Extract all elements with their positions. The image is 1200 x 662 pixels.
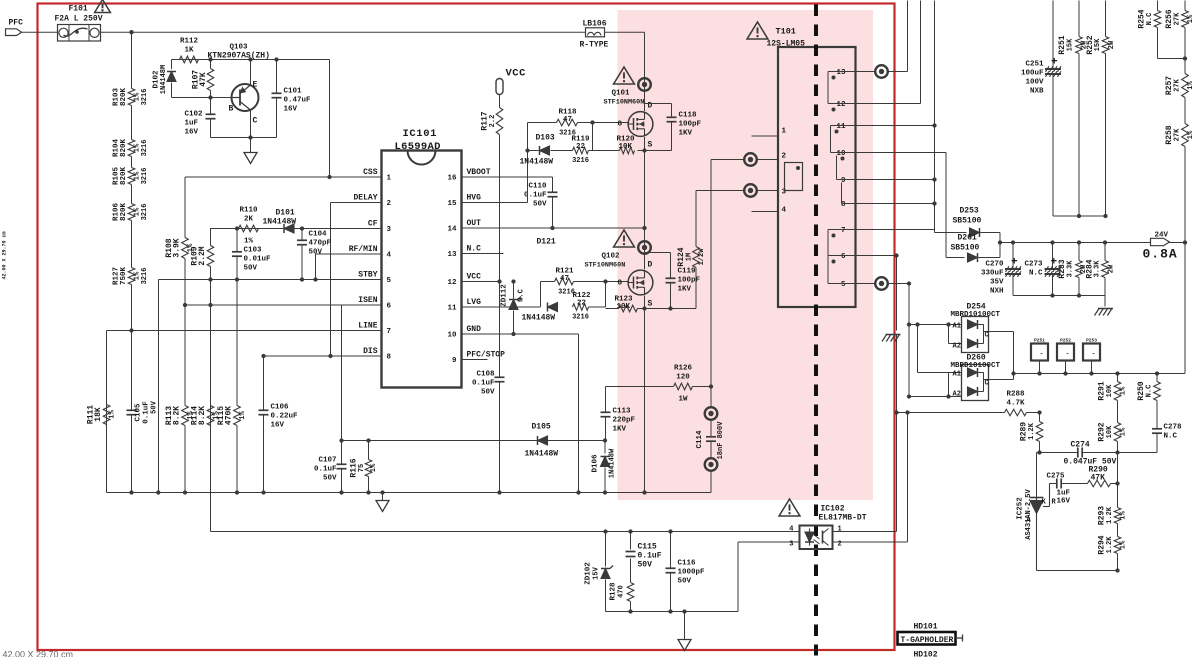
svg-text:R288: R288 [1006, 391, 1025, 399]
junction ZD112/GND [511, 332, 515, 336]
wire ISEN line [185, 304, 382, 306]
wire pin3 line [738, 542, 800, 612]
rectifier D260 [951, 354, 1001, 401]
wire to ground [250, 138, 252, 153]
wire chain top [131, 32, 133, 88]
wire C251 bottom rail [1053, 215, 1106, 217]
svg-text:1%: 1% [1187, 130, 1195, 139]
svg-text:S: S [648, 141, 653, 150]
junction R128/rail [628, 609, 632, 613]
svg-text:N.C: N.C [467, 245, 482, 254]
svg-text:14: 14 [447, 226, 457, 234]
svg-text:50V: 50V [151, 400, 159, 413]
svg-text:220pF: 220pF [613, 417, 636, 425]
junction R290 line [1115, 481, 1119, 485]
svg-text:3216: 3216 [141, 89, 149, 106]
label C105 [135, 400, 159, 423]
svg-text:1N4148W: 1N4148W [520, 158, 554, 167]
capacitor C108 [472, 371, 505, 397]
svg-text:4: 4 [782, 207, 787, 215]
junction D103 line [525, 148, 529, 152]
svg-text:D: D [648, 261, 653, 270]
wire pin5 east [888, 283, 909, 285]
svg-text:8.2K: 8.2K [173, 406, 182, 425]
resistor R256 [1165, 9, 1195, 28]
wire x896 feedback drop [896, 335, 898, 532]
wire R119-R120 riser [592, 123, 594, 151]
svg-text:SB5100: SB5100 [953, 217, 982, 226]
ground at Q103 [244, 153, 257, 164]
junction C107/rail [339, 490, 343, 494]
svg-text:50V: 50V [244, 265, 258, 273]
transistor Q103 [208, 44, 270, 126]
diode D253 [935, 207, 1001, 238]
svg-text:13: 13 [447, 251, 457, 259]
svg-text:N.C: N.C [1029, 270, 1043, 278]
wire drop x908 to rectifiers [908, 284, 910, 397]
connector HD101/HD102 T-GAPHOLDER [898, 623, 963, 660]
svg-text:L6599AD: L6599AD [395, 141, 441, 153]
transformer T101 [778, 47, 856, 307]
wire pin13 to TP [856, 71, 876, 73]
junction D254 A1 feed [907, 322, 911, 326]
svg-text:50V: 50V [323, 475, 337, 483]
ground at rail [376, 501, 389, 512]
wire D260 bracket [948, 373, 950, 397]
wire R103-R104 [131, 106, 133, 140]
junction C113/D105/D106 [603, 438, 607, 442]
svg-text:3216: 3216 [141, 140, 149, 157]
junction C104/STBY [300, 277, 304, 281]
svg-text:GND: GND [467, 325, 482, 334]
op-amp IC101 (L6599AD controller) [382, 128, 462, 388]
wire output rail 2 [1014, 373, 1186, 375]
svg-text:C: C [253, 117, 258, 126]
test point pin13 [875, 65, 888, 78]
svg-text:-: - [1066, 351, 1070, 358]
wire Q101 source to OUT [644, 137, 646, 270]
svg-text:100pF: 100pF [679, 121, 702, 129]
winding T101 primary [785, 163, 803, 191]
resistor R258 [1165, 124, 1195, 147]
svg-text:3.9K: 3.9K [173, 238, 182, 257]
svg-text:C101: C101 [284, 88, 303, 96]
junction pin9/riser [932, 177, 936, 181]
svg-text:5: 5 [841, 281, 846, 289]
junction R118/riser [590, 120, 594, 124]
svg-text:C114: C114 [696, 430, 704, 449]
pin numbers T101 primary [782, 128, 787, 215]
junction C116 [668, 529, 672, 533]
svg-text:1: 1 [782, 128, 787, 136]
capacitor C101 [272, 60, 312, 138]
wire LINE drop R111 [106, 331, 108, 493]
resistor R294 [1098, 535, 1128, 554]
svg-text:S: S [648, 300, 653, 309]
wire D105 line [342, 440, 606, 442]
resistor R119 [571, 136, 590, 166]
resistor R288 [1005, 391, 1027, 416]
wire pin6 east [856, 255, 897, 257]
svg-text:7: 7 [387, 328, 392, 336]
svg-text:R128: R128 [610, 582, 618, 601]
svg-text:ZD112: ZD112 [501, 284, 509, 307]
svg-text:DIS: DIS [363, 347, 378, 356]
wire ground rail [107, 492, 712, 494]
svg-text:C107: C107 [318, 457, 336, 465]
capacitor C103 [232, 229, 271, 280]
wire riser C251 [1052, 1, 1054, 217]
capacitor C270 [981, 257, 1021, 296]
svg-text:B: B [229, 105, 234, 114]
junction R288/R289 [1037, 410, 1041, 414]
svg-text:C270: C270 [985, 261, 1004, 269]
junction R283/gnd [1077, 293, 1081, 297]
svg-text:9: 9 [452, 357, 457, 365]
test point Q102 drain [638, 241, 651, 254]
wire gate riser Q102 [540, 282, 542, 308]
svg-text:N.C: N.C [1164, 433, 1178, 441]
junction OUT/half-bridge [642, 226, 646, 230]
wire GND drop [578, 334, 580, 493]
svg-text:C119: C119 [678, 268, 697, 276]
svg-text:1%: 1% [1120, 427, 1128, 436]
svg-text:1uF: 1uF [1057, 490, 1071, 498]
svg-text:22: 22 [577, 300, 587, 308]
svg-text:C: C [985, 380, 989, 388]
inductor LB106 [580, 20, 609, 50]
svg-text:VCC: VCC [506, 68, 527, 80]
wire Q103 to CSS [329, 60, 331, 178]
junction C106/rail [261, 490, 265, 494]
svg-text:2W: 2W [1108, 264, 1116, 273]
svg-text:R126: R126 [674, 365, 693, 373]
svg-text:C103: C103 [244, 247, 263, 255]
resistor R292 [1098, 422, 1128, 441]
wire C113 column [605, 387, 607, 441]
junction R294/rail [1115, 568, 1119, 572]
svg-text:C275: C275 [1047, 473, 1066, 481]
junction C273/gnd [1050, 293, 1054, 297]
wire Q102 source down [644, 296, 646, 493]
capacitor C118 [667, 104, 702, 151]
resistor R120 [606, 136, 636, 154]
svg-text:100V: 100V [1025, 79, 1044, 87]
wire DELAY drop [330, 203, 332, 357]
svg-text:1%: 1% [239, 411, 247, 420]
resistor R251 [1058, 35, 1082, 216]
svg-text:C106: C106 [271, 404, 290, 412]
svg-text:18nF 800V: 18nF 800V [717, 421, 725, 460]
wire pin2 to column [711, 159, 744, 161]
wire CF line [210, 228, 382, 230]
svg-text:16V: 16V [185, 129, 199, 137]
junction RFMIN/STBY [313, 277, 317, 281]
svg-text:0.8A: 0.8A [1143, 247, 1178, 262]
wire gnd stub C270 rail [1104, 296, 1106, 307]
svg-text:G: G [618, 121, 623, 129]
wire Q101 D-S to C118 [645, 103, 672, 105]
svg-text:C115: C115 [638, 543, 657, 552]
svg-text:42.00 X 29.70 cm: 42.00 X 29.70 cm [3, 650, 74, 658]
svg-text:35V: 35V [990, 279, 1004, 287]
svg-text:24V: 24V [1155, 232, 1169, 240]
wire C114 column [710, 387, 712, 493]
warning symbol at Q102 [614, 230, 635, 247]
resistor R128 [610, 582, 634, 601]
resistor R293 [1098, 506, 1128, 525]
junction Q102 source [642, 306, 646, 310]
svg-text:50V: 50V [533, 201, 547, 209]
highlight region (pink) [618, 10, 874, 500]
junction P253 [1089, 371, 1093, 375]
svg-text:47K: 47K [199, 72, 208, 87]
svg-text:16V: 16V [271, 422, 285, 430]
svg-text:C104: C104 [309, 231, 328, 239]
svg-text:C273: C273 [1024, 261, 1043, 269]
svg-text:STBY: STBY [358, 271, 377, 280]
svg-text:1000pF: 1000pF [678, 569, 706, 577]
wire D260 A1 feed [918, 325, 962, 373]
svg-text:1%: 1% [370, 463, 378, 472]
rectifier D254 [951, 303, 1001, 353]
svg-text:3216: 3216 [572, 314, 589, 322]
junction C107 top [339, 438, 343, 442]
wire to D260 A2 [909, 396, 962, 398]
wire gate line Q102 [541, 281, 628, 283]
svg-text:D105: D105 [532, 423, 551, 432]
svg-text:8: 8 [387, 354, 392, 362]
wire D102 to Q103 base [172, 97, 232, 99]
svg-text:0.1uF: 0.1uF [143, 401, 151, 424]
svg-text:N.C: N.C [518, 289, 526, 302]
connector 24V [1143, 232, 1178, 262]
resistor R104 [113, 139, 150, 158]
svg-text:G: G [618, 280, 623, 288]
svg-text:NXB: NXB [1030, 88, 1044, 96]
svg-text:A1: A1 [953, 323, 961, 331]
wire R123 to source [638, 308, 697, 310]
junction Q102 source/rail [642, 490, 646, 494]
svg-text:C: C [985, 332, 989, 340]
svg-text:C278: C278 [1164, 424, 1183, 432]
junction gnd stub low [682, 609, 686, 613]
svg-text:LVG: LVG [467, 298, 482, 307]
svg-text:T101: T101 [776, 27, 796, 37]
winding T101 sec 7-6-5 [828, 230, 856, 284]
svg-text:1%: 1% [1120, 386, 1128, 395]
svg-text:A1: A1 [953, 371, 961, 379]
wire pin11 east [856, 125, 935, 127]
capacitor C278 [1152, 424, 1182, 441]
optocoupler IC102 [789, 505, 866, 550]
capacitor C251 [1021, 57, 1061, 96]
wire LINE line [107, 330, 382, 332]
fuse F101 [55, 5, 103, 42]
junction bracket D254 [946, 322, 950, 326]
svg-text:R110: R110 [239, 207, 258, 215]
resistor R112 [180, 38, 199, 63]
svg-text:16V: 16V [1057, 498, 1071, 506]
junction C105/rail [129, 490, 133, 494]
svg-text:15K: 15K [1094, 38, 1102, 51]
svg-text:470pF: 470pF [309, 240, 332, 248]
svg-text:CSS: CSS [363, 168, 378, 177]
junction GND/rail [576, 490, 580, 494]
test point T101 pin2 [744, 153, 757, 166]
capacitor C275 [1047, 473, 1066, 489]
wire pin9 PFC/STOP stub [462, 359, 488, 361]
svg-text:3: 3 [387, 226, 392, 234]
svg-text:T-GAPHOLDER: T-GAPHOLDER [901, 636, 954, 645]
wire STBY line [159, 279, 382, 281]
warning symbol at F101 [95, 0, 111, 12]
wire riser R252 [1105, 1, 1107, 37]
jumper P252 [1057, 338, 1074, 374]
resistor R122 [572, 292, 591, 322]
wire T101 pin4 stub [752, 211, 779, 213]
svg-text:75: 75 [358, 464, 366, 472]
junction R258/24V rail [1183, 240, 1187, 244]
svg-text:1KV: 1KV [678, 286, 692, 294]
svg-text:1M: 1M [686, 253, 694, 261]
wire pin13 east [888, 71, 908, 73]
wire HVG stub [462, 202, 528, 204]
svg-text:11: 11 [447, 305, 457, 313]
wire R105-R106 [131, 185, 133, 204]
svg-text:0.01uF: 0.01uF [244, 256, 272, 264]
left margin note [2, 231, 8, 279]
svg-text:LINE: LINE [358, 322, 377, 331]
wire pin3 column [695, 191, 697, 309]
svg-text:MBRD10100CT: MBRD10100CT [951, 362, 1001, 370]
svg-text:C110: C110 [528, 183, 547, 191]
warning symbol at IC102 [779, 499, 800, 516]
warning symbol at T101 [747, 22, 768, 39]
test point C114 top [705, 407, 718, 420]
wire 24V to output rail drop [1184, 243, 1186, 374]
svg-text:0.22uF: 0.22uF [271, 413, 299, 421]
junction base line / C102 [208, 95, 212, 99]
junction C273/rail [1050, 240, 1054, 244]
junction 24V node [998, 240, 1002, 244]
test point C114 bottom [705, 458, 718, 471]
svg-text:1N4148W: 1N4148W [525, 450, 559, 459]
junction R116 top [366, 438, 370, 442]
wire R104-R105 [131, 157, 133, 168]
capacitor C105 [127, 408, 137, 418]
capacitor C107 [314, 441, 347, 493]
svg-text:C251: C251 [1025, 61, 1044, 69]
svg-text:10: 10 [447, 332, 457, 340]
svg-text:18K: 18K [94, 407, 103, 422]
svg-text:D261: D261 [958, 234, 977, 243]
wire R109 column / opto feed [210, 229, 212, 532]
junction R250 column [1155, 371, 1159, 375]
svg-text:N.C: N.C [1146, 13, 1154, 26]
wire column x1156 [1156, 374, 1158, 453]
junction R254/R256 [1183, 56, 1187, 60]
svg-text:C105: C105 [135, 403, 143, 422]
svg-text:HD102: HD102 [914, 651, 938, 658]
wire pin1 line [833, 531, 897, 533]
chassis ground at C270 rail [1095, 309, 1114, 316]
svg-text:1%: 1% [1187, 14, 1195, 23]
resistor R283 [1058, 243, 1082, 296]
wire to D254 A1 [909, 324, 962, 326]
resistor R103 [113, 88, 150, 107]
resistor R110 [239, 207, 259, 246]
resistor R116 [350, 441, 379, 493]
transistor Q101 [628, 112, 653, 137]
junction pin8/riser [932, 201, 936, 205]
svg-text:1KV: 1KV [613, 426, 627, 434]
junction D260 A2 feed [907, 394, 911, 398]
resistor R250 [1137, 381, 1160, 400]
wire STBY drop [158, 280, 160, 493]
svg-text:IC102: IC102 [821, 505, 845, 514]
resistor R284 [1080, 243, 1116, 296]
svg-text:VBOOT: VBOOT [467, 168, 491, 177]
junction R283/rail [1077, 240, 1081, 244]
svg-text:2: 2 [782, 153, 787, 161]
junction C110/OUT [550, 226, 554, 230]
wire riser R254 [1157, 1, 1159, 59]
resistor R108 [165, 177, 195, 305]
wire C110 column [552, 177, 554, 228]
junction R112/R107 [208, 57, 212, 61]
svg-text:ISEN: ISEN [358, 296, 377, 305]
wire gnd stub [382, 493, 384, 501]
svg-text:470: 470 [618, 585, 626, 598]
svg-text:D: D [648, 102, 653, 111]
resistor R115 [217, 280, 247, 493]
wire R258 down to 24V [1184, 147, 1186, 243]
junction DIS/C106 [261, 354, 265, 358]
junction R109/STBY [208, 277, 212, 281]
svg-text:10K: 10K [1106, 384, 1114, 397]
resistor R106 [113, 203, 150, 222]
resistor R109 [191, 246, 214, 267]
svg-text:120: 120 [676, 374, 690, 382]
wire pin12 east [856, 103, 921, 105]
svg-text:RF/MIN: RF/MIN [349, 245, 378, 254]
junction ZD102 [603, 529, 607, 533]
wire column x1117 [1117, 374, 1119, 571]
wire R288 to R289 [1027, 412, 1040, 414]
wire OUT line [462, 227, 645, 229]
test point Q101 drain [638, 78, 651, 91]
junction pin5/drop [907, 281, 911, 285]
wire RF/MIN drop [315, 254, 317, 280]
pin labels IC101 left [349, 168, 392, 362]
resistor R289 [1020, 413, 1043, 453]
svg-text:2.2: 2.2 [489, 115, 497, 128]
svg-text:10: 10 [836, 150, 846, 158]
svg-text:8.2K: 8.2K [198, 406, 207, 425]
svg-text:4: 4 [387, 252, 392, 260]
svg-text:A2: A2 [953, 343, 961, 351]
svg-text:1KV: 1KV [679, 130, 693, 138]
junction C101 top [274, 57, 278, 61]
winding T101 sec 13-12 [828, 72, 856, 112]
svg-text:15: 15 [447, 200, 457, 208]
capacitor C106 [259, 404, 299, 430]
svg-text:47: 47 [560, 275, 569, 283]
wire 24V rail [1000, 242, 1185, 244]
wire riser R122 [605, 282, 607, 308]
wire Q103 emitter [250, 60, 252, 86]
